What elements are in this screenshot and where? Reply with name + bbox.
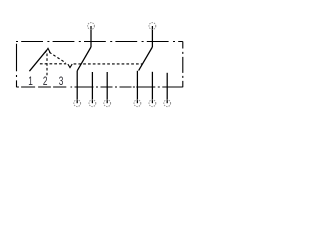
thermostat actuator arrow (29, 48, 50, 71)
svg-text:3: 3 (59, 76, 64, 88)
wire from top terminal to switch S1 (90, 26, 92, 47)
enclosure outline bottom edge (17, 86, 183, 88)
mechanical link dashed line right part (74, 63, 142, 65)
bottom terminal circle 3 (104, 100, 111, 107)
svg-text:1: 1 (28, 76, 33, 88)
bottom terminal circle 4 (134, 100, 141, 107)
bottom terminal circle 6 (164, 100, 171, 107)
wire S2 contact b (166, 73, 168, 103)
mechanical link dashed line left part (40, 63, 66, 65)
enclosure outline top edge (16, 41, 183, 43)
dashed diagonal link (49, 52, 66, 63)
enclosure outline left edge (16, 42, 18, 88)
bottom terminal circle 5 (149, 100, 156, 107)
svg-text:2: 2 (43, 76, 48, 88)
top terminal circle A (88, 23, 95, 30)
setpoint dashed vertical link (46, 54, 48, 76)
bottom terminal circle 1 (74, 100, 81, 107)
top terminal circle B (149, 23, 156, 30)
switch S1 blade (77, 47, 91, 71)
wire from top terminal to switch S2 (151, 26, 153, 47)
wire S1 contact a (91, 72, 93, 103)
wire switch S1 common to terminal (76, 71, 78, 103)
wire S2 contact a (151, 72, 153, 103)
enclosure outline right edge (182, 42, 184, 88)
wire switch S2 common to terminal (136, 71, 138, 103)
actuation arrowhead v (68, 64, 72, 68)
bottom terminal circle 2 (89, 100, 96, 107)
wire S1 contact b (106, 72, 108, 103)
switch S2 blade (139, 47, 153, 71)
